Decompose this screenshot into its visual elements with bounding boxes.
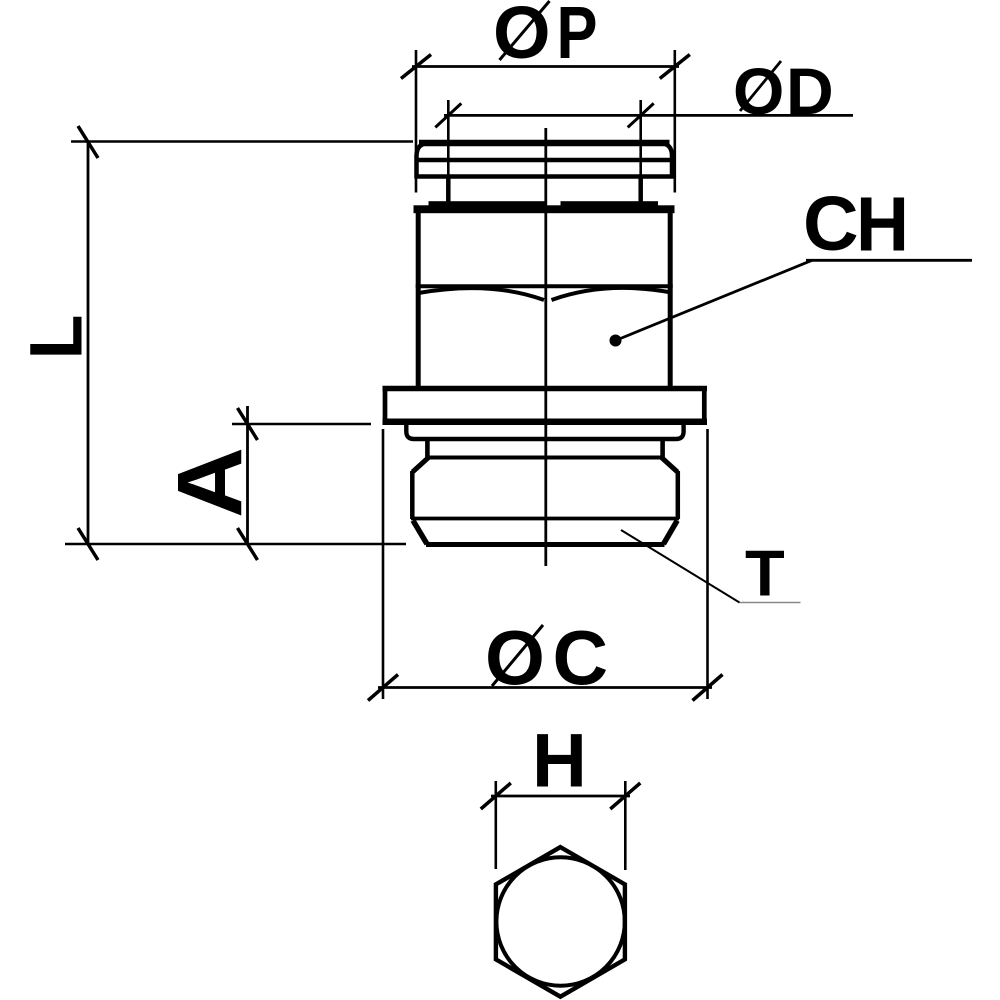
cap outline (release collar) (417, 143, 673, 179)
center line (544, 128, 547, 566)
svg-text:C: C (553, 616, 609, 702)
dim ØD extension line right (639, 100, 642, 176)
thread neck right side (660, 439, 665, 458)
label ØP slash (500, 1, 550, 60)
flange left side (383, 389, 388, 423)
dim ØC tick left (368, 675, 398, 701)
label ØD slash (740, 61, 781, 111)
dim H tick right (610, 783, 640, 809)
svg-text:L: L (15, 314, 98, 359)
cap top thick edge (419, 140, 670, 147)
dim ØP tick left (401, 55, 431, 79)
dim ØP dimension line (412, 65, 679, 68)
svg-text:H: H (856, 182, 909, 268)
hex chamfer line (416, 284, 673, 288)
svg-text:T: T (745, 537, 785, 610)
hex chamfer arc right (552, 288, 672, 300)
label CH leader underline (806, 259, 972, 262)
dim ØP extension line right (673, 50, 676, 193)
dim ØC extension line right (706, 429, 709, 699)
label T leader underline (740, 602, 801, 604)
dim A dimension line (246, 406, 249, 544)
svg-text:P: P (557, 0, 598, 74)
bulge bottom edge (426, 542, 665, 547)
dim L bottom extension line (65, 543, 406, 546)
label ØC slash (492, 625, 543, 686)
body right side (668, 213, 673, 388)
dim ØP tick right (660, 55, 690, 79)
body left side (416, 213, 421, 388)
dim L tick bottom (78, 528, 98, 560)
thread neck bottom line (427, 456, 663, 460)
dim ØD extension line left (447, 100, 450, 176)
flange bottom edge (383, 419, 708, 426)
bulge lower chamfer right (664, 521, 678, 545)
label CH leader dot (610, 335, 622, 347)
flange right side (702, 389, 707, 423)
bulge mid line (411, 517, 679, 521)
dim H dimension line (491, 795, 630, 798)
label T leader diagonal (621, 530, 740, 603)
svg-text:D: D (786, 54, 834, 128)
dim H tick left (481, 783, 511, 809)
dim ØD dimension line (444, 114, 853, 117)
dim A tick bottom (238, 528, 258, 560)
dim H extension line left (494, 781, 497, 869)
hexagon (bottom view) (496, 847, 625, 997)
cap inner line (415, 158, 675, 163)
dim ØC extension line left (382, 429, 385, 699)
body top raised bar left segment (429, 201, 546, 207)
bulge right side (676, 471, 681, 519)
cap bottom edge (415, 174, 675, 179)
collar neck left side (446, 177, 451, 207)
svg-text:A: A (159, 447, 261, 518)
svg-text:H: H (532, 719, 587, 804)
label CH leader diagonal (616, 260, 813, 340)
hex chamfer arc left (419, 288, 545, 300)
dim ØP extension line left (415, 50, 418, 193)
dim ØC dimension line (378, 686, 712, 689)
thread neck left side (425, 439, 430, 458)
dim A tick top (238, 408, 258, 440)
dim ØD tick left (435, 103, 461, 127)
washer step below flange (406, 425, 683, 440)
body top raised bar right segment (561, 201, 659, 207)
dim L top extension line (71, 140, 413, 143)
bulge top chamfer left (413, 458, 429, 473)
dim H extension line right (624, 781, 627, 870)
dim L tick top (78, 126, 98, 158)
inscribed circle (496, 857, 624, 985)
svg-text:C: C (803, 181, 859, 267)
body top main bar (414, 205, 675, 213)
dim A top extension line (232, 423, 371, 426)
bulge top chamfer right (662, 458, 678, 473)
dim L dimension line (87, 142, 90, 544)
bulge lower chamfer left (413, 521, 427, 545)
flange top edge (383, 386, 708, 392)
dim ØC tick right (693, 675, 723, 701)
dim ØD tick right (628, 103, 654, 127)
collar neck right side (638, 177, 643, 207)
bulge left side (410, 471, 415, 519)
